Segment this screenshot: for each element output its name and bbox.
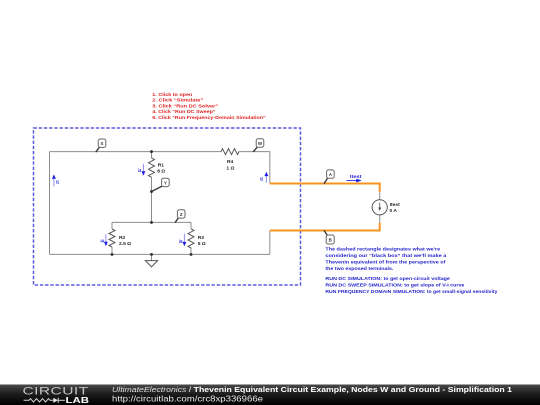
svg-text:3. Click “Run DC Solver”: 3. Click “Run DC Solver” [152, 103, 218, 109]
svg-text:Y: Y [164, 180, 167, 185]
svg-text:1 Ω: 1 Ω [226, 165, 234, 171]
svg-text:Itest: Itest [390, 202, 400, 208]
svg-text:Itest: Itest [350, 174, 362, 179]
svg-text:The dashed rectangle designate: The dashed rectangle designates what we’… [325, 246, 440, 252]
svg-text:1. Click to open: 1. Click to open [152, 92, 192, 98]
svg-text:8 Ω: 8 Ω [157, 169, 165, 175]
svg-text:i1: i1 [56, 179, 60, 184]
svg-text:Thevenin equivalent of from th: Thevenin equivalent of from the perspect… [325, 259, 445, 265]
svg-text:4. Click “Run DC Sweep”: 4. Click “Run DC Sweep” [152, 109, 216, 115]
svg-text:X: X [101, 141, 104, 146]
svg-text:2. Click “Simulate”: 2. Click “Simulate” [152, 98, 204, 104]
svg-text:RUN FREQUENCY DOMAIN SIMULATIO: RUN FREQUENCY DOMAIN SIMULATION: to get … [325, 289, 497, 295]
svg-text:2.5 Ω: 2.5 Ω [119, 241, 131, 247]
svg-text:UltimateElectronics / Thevenin: UltimateElectronics / Thevenin Equivalen… [112, 385, 512, 394]
svg-text:R3: R3 [198, 235, 205, 241]
svg-text:Z: Z [180, 212, 183, 217]
svg-text:considering our “black box” th: considering our “black box” that we’ll m… [325, 253, 446, 259]
svg-text:R2: R2 [119, 235, 126, 241]
svg-text:R4: R4 [227, 159, 234, 165]
svg-text:i2: i2 [260, 176, 264, 181]
svg-text:5. Click “Run Frequency-Domain: 5. Click “Run Frequency-Domain Simulatio… [152, 115, 266, 121]
svg-text:i4: i4 [101, 239, 105, 244]
svg-text:B: B [329, 238, 332, 243]
svg-text:the two exposed terminals.: the two exposed terminals. [325, 266, 394, 272]
svg-text:R1: R1 [158, 163, 165, 169]
svg-text:LAB: LAB [66, 395, 90, 405]
svg-text:RUN DC SIMULATION: to get open: RUN DC SIMULATION: to get open-circuit v… [325, 276, 450, 282]
svg-text:0 A: 0 A [390, 208, 398, 214]
svg-text:RUN DC SWEEP SIMULATION: to ge: RUN DC SWEEP SIMULATION: to get slope of… [325, 282, 464, 288]
svg-text:http://circuitlab.com/crc8xp33: http://circuitlab.com/crc8xp336966e [112, 395, 264, 404]
svg-text:i3: i3 [138, 168, 142, 173]
svg-text:5 Ω: 5 Ω [198, 241, 206, 247]
svg-text:i5: i5 [179, 239, 183, 244]
